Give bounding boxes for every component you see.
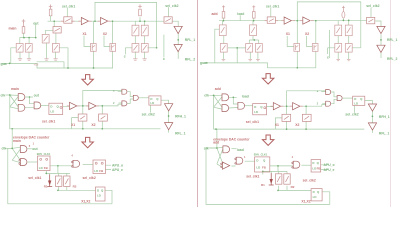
svg-text:LD: LD (313, 195, 317, 199)
svg-text:clk: clk (204, 146, 209, 150)
svg-text:main: main (9, 26, 17, 30)
svg-text:FB: FB (262, 166, 266, 170)
svg-text:LD: LD (50, 110, 54, 114)
svg-text:D: D (256, 159, 258, 163)
svg-text:FB: FB (99, 169, 103, 173)
svg-text:X1: X1 (83, 32, 87, 36)
svg-text:RFL_1: RFL_1 (387, 38, 397, 42)
svg-text:R2: R2 (73, 184, 77, 188)
svg-text:D: D (50, 105, 52, 109)
svg-text:c: c (327, 56, 329, 60)
svg-text:APU_o: APU_o (324, 163, 335, 167)
svg-text:load: load (242, 95, 249, 99)
svg-text:sel_clk1: sel_clk1 (246, 175, 259, 179)
svg-text:APU_e: APU_e (112, 168, 123, 172)
svg-text:out: out (34, 93, 40, 97)
svg-text:main: main (13, 139, 21, 143)
svg-text:sel_clk2: sel_clk2 (83, 176, 96, 180)
svg-text:LD: LD (39, 166, 43, 170)
svg-text:sel_clk2: sel_clk2 (303, 179, 316, 183)
svg-text:+12: +12 (34, 63, 39, 67)
svg-text:ENV_CLK1: ENV_CLK1 (254, 153, 268, 157)
svg-text:add: add (215, 87, 221, 91)
svg-text:add: add (212, 12, 218, 16)
svg-text:add: add (213, 141, 219, 145)
svg-text:D: D (313, 190, 315, 194)
svg-text:LD: LD (97, 194, 101, 198)
svg-text:gua: gua (200, 61, 206, 65)
svg-text:sel_clk2: sel_clk2 (345, 113, 358, 117)
svg-text:X2: X2 (91, 123, 95, 127)
svg-text:FB: FB (44, 166, 48, 170)
svg-text:RFH_1: RFH_1 (379, 115, 390, 119)
svg-text:X1,X2: X1,X2 (81, 200, 90, 204)
svg-text:LD: LD (354, 102, 358, 106)
svg-text:LD: LD (94, 169, 98, 173)
svg-text:R2: R2 (291, 185, 295, 189)
svg-text:sel_clk1: sel_clk1 (28, 176, 41, 180)
svg-text:RFL_2: RFL_2 (185, 57, 195, 61)
svg-text:D: D (312, 161, 314, 165)
svg-text:clk: clk (2, 147, 7, 151)
svg-text:clk: clk (204, 94, 209, 98)
svg-text:RFL_1: RFL_1 (185, 38, 195, 42)
svg-text:c: c (163, 57, 165, 61)
svg-text:main: main (11, 87, 19, 91)
svg-text:X2: X2 (305, 32, 309, 36)
svg-text:X1: X1 (286, 32, 290, 36)
svg-text:sel_clk2: sel_clk2 (165, 4, 178, 8)
svg-text:RFL_2: RFL_2 (387, 57, 397, 61)
svg-text:X1,X2: X1,X2 (301, 200, 310, 204)
svg-text:load: load (237, 148, 244, 152)
svg-text:R1: R1 (261, 183, 265, 187)
svg-text:out: out (33, 22, 39, 26)
svg-text:gua: gua (1, 62, 7, 66)
svg-text:APU_e: APU_e (324, 168, 335, 172)
svg-text:APU_o: APU_o (112, 163, 123, 167)
svg-text:sel_clk2: sel_clk2 (142, 112, 155, 116)
svg-text:clk: clk (1, 93, 6, 97)
svg-text:RFL_1: RFL_1 (175, 131, 185, 135)
svg-text:X2: X2 (295, 123, 299, 127)
svg-text:D: D (254, 105, 256, 109)
svg-text:c: c (124, 55, 126, 59)
svg-text:FB: FB (317, 166, 321, 170)
svg-text:LD: LD (150, 101, 154, 105)
svg-text:X1: X1 (71, 123, 75, 127)
svg-text:ENV_CLK1: ENV_CLK1 (37, 152, 51, 156)
svg-text:sel_clk1: sel_clk1 (42, 120, 55, 124)
svg-text:R1: R1 (44, 184, 48, 188)
svg-text:LD: LD (254, 110, 258, 114)
svg-text:sel_clk1: sel_clk1 (266, 4, 279, 8)
svg-text:RFH_1: RFH_1 (175, 115, 186, 119)
svg-text:sel_clk2: sel_clk2 (366, 4, 379, 8)
svg-text:sel_clk1: sel_clk1 (246, 120, 259, 124)
svg-text:RFL_1: RFL_1 (379, 132, 389, 136)
svg-text:sel_clk1: sel_clk1 (62, 4, 75, 8)
svg-text:X1: X1 (275, 123, 279, 127)
svg-text:load: load (237, 12, 244, 16)
svg-text:out: out (32, 147, 38, 151)
svg-text:X2: X2 (103, 32, 107, 36)
svg-text:D: D (97, 189, 99, 193)
svg-text:LD: LD (256, 166, 260, 170)
